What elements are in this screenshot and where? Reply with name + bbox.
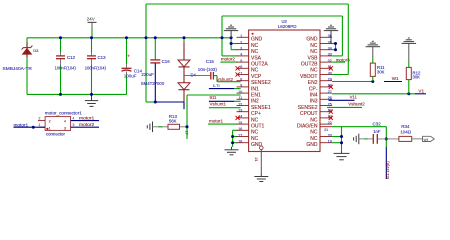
svg-text:OUT1: OUT1 [251, 124, 265, 130]
svg-text:GND: GND [306, 142, 318, 148]
svg-text:VSB: VSB [307, 55, 318, 61]
svg-text:NC: NC [310, 130, 318, 136]
svg-text:1: 1 [49, 127, 51, 131]
svg-text:IN1: IN1 [251, 86, 259, 92]
svg-text:motor2: motor2 [221, 56, 236, 61]
svg-text:1.TI: 1.TI [213, 83, 220, 88]
svg-text:100uF: 100uF [124, 73, 137, 78]
svg-text:3: 3 [64, 127, 66, 131]
svg-text:GND: GND [251, 37, 263, 43]
svg-text:C32: C32 [373, 121, 382, 126]
svg-text:4: 4 [73, 117, 75, 121]
svg-text:27: 27 [328, 90, 332, 94]
svg-text:10n-(103): 10n-(103) [198, 67, 218, 72]
svg-text:4: 4 [64, 120, 66, 124]
svg-text:30: 30 [328, 71, 332, 75]
svg-text:6: 6 [240, 65, 242, 69]
svg-text:104Ω: 104Ω [400, 130, 412, 135]
svg-text:EN1: EN1 [251, 93, 261, 99]
svg-text:10: 10 [238, 90, 242, 94]
svg-text:motor1: motor1 [209, 118, 224, 123]
svg-text:220uF: 220uF [141, 72, 154, 77]
svg-text:motor_connector1: motor_connector1 [45, 111, 82, 116]
svg-text:19: 19 [328, 140, 332, 144]
svg-text:26: 26 [328, 96, 332, 100]
svg-text:1nF: 1nF [373, 129, 381, 134]
svg-text:C15: C15 [206, 59, 215, 64]
svg-text:NC: NC [251, 43, 259, 49]
svg-text:D3: D3 [33, 48, 39, 53]
svg-text:25: 25 [328, 102, 332, 106]
svg-text:Vshunt1: Vshunt1 [210, 102, 227, 107]
svg-text:NC: NC [310, 68, 318, 74]
svg-text:4: 4 [240, 53, 242, 57]
svg-text:IN3: IN3 [310, 99, 318, 105]
svg-text:NC: NC [251, 130, 259, 136]
svg-text:+: + [127, 54, 130, 59]
svg-text:16: 16 [238, 127, 242, 131]
svg-text:17: 17 [185, 131, 189, 135]
svg-text:NC: NC [310, 117, 318, 123]
svg-text:20: 20 [328, 133, 332, 137]
svg-text:56K: 56K [169, 119, 177, 124]
svg-text:2: 2 [49, 120, 51, 124]
svg-text:motor3: motor3 [336, 57, 351, 62]
svg-text:SENSE1: SENSE1 [251, 105, 271, 111]
svg-text:2: 2 [39, 117, 41, 121]
svg-text:911: 911 [210, 95, 218, 100]
svg-text:NC: NC [310, 43, 318, 49]
svg-text:29: 29 [328, 78, 332, 82]
svg-text:N-1.11V(K): N-1.11V(K) [386, 161, 390, 179]
svg-text:100nF(104): 100nF(104) [55, 65, 77, 70]
svg-text:21: 21 [324, 128, 328, 132]
svg-text:11: 11 [239, 96, 243, 100]
svg-text:NC: NC [310, 49, 318, 55]
svg-text:30K: 30K [413, 74, 421, 79]
svg-text:9: 9 [240, 84, 242, 88]
svg-text:32: 32 [328, 59, 332, 63]
svg-text:Vshunt2: Vshunt2 [348, 101, 365, 106]
svg-text:7: 7 [240, 71, 242, 75]
svg-text:motor1: motor1 [79, 116, 95, 122]
svg-text:CP-: CP- [309, 86, 318, 92]
svg-text:1: 1 [240, 34, 242, 38]
svg-text:DIAG/EN: DIAG/EN [297, 124, 318, 130]
svg-text:3: 3 [73, 123, 75, 127]
svg-text:NC: NC [251, 68, 259, 74]
svg-text:IN2: IN2 [251, 99, 259, 105]
svg-text:CPOUT: CPOUT [300, 111, 318, 117]
svg-text:1: 1 [39, 123, 41, 127]
svg-text:SENSE2: SENSE2 [298, 105, 318, 111]
svg-text:SENSE2: SENSE2 [251, 80, 271, 86]
svg-text:35: 35 [328, 40, 332, 44]
svg-text:NC: NC [251, 136, 259, 142]
svg-text:15: 15 [238, 121, 242, 125]
svg-text:21: 21 [254, 158, 258, 162]
svg-text:motor1: motor1 [14, 122, 29, 127]
svg-text:13: 13 [238, 109, 242, 113]
svg-text:2: 2 [240, 40, 242, 44]
svg-text:V1: V1 [418, 88, 424, 93]
svg-text:connector: connector [46, 132, 65, 137]
svg-text:17: 17 [238, 133, 242, 137]
svg-text:Vshunt2: Vshunt2 [217, 77, 234, 82]
svg-text:8: 8 [240, 78, 242, 82]
svg-text:L6208PD: L6208PD [278, 24, 298, 29]
svg-text:34: 34 [328, 47, 332, 51]
svg-text:V11: V11 [350, 95, 358, 100]
svg-text:SMBJ40A-TR: SMBJ40A-TR [3, 66, 33, 72]
svg-text:33: 33 [328, 53, 332, 57]
svg-text:W1: W1 [392, 76, 399, 81]
svg-text:motor2: motor2 [79, 122, 95, 128]
svg-text:W4: W4 [424, 138, 429, 142]
svg-text:OUT2B: OUT2B [301, 62, 318, 68]
svg-text:GND: GND [251, 142, 263, 148]
svg-text:30K: 30K [377, 69, 385, 74]
svg-text:VSA: VSA [251, 55, 262, 61]
svg-text:12: 12 [238, 102, 242, 106]
svg-text:NC: NC [310, 136, 318, 142]
svg-text:24V: 24V [87, 16, 96, 21]
svg-text:EN2: EN2 [308, 80, 318, 86]
svg-text:IN4: IN4 [310, 93, 318, 99]
svg-text:VCP: VCP [251, 74, 262, 80]
svg-text:D4: D4 [191, 72, 197, 77]
svg-text:36: 36 [328, 34, 332, 38]
svg-text:OUT2A: OUT2A [251, 62, 268, 68]
svg-text:NC: NC [251, 117, 259, 123]
svg-text:18: 18 [238, 140, 242, 144]
svg-text:100nF(104): 100nF(104) [85, 65, 107, 70]
svg-text:C16: C16 [162, 59, 171, 64]
svg-text:VBOOT: VBOOT [300, 74, 318, 80]
svg-text:5: 5 [240, 59, 242, 63]
svg-text:C12: C12 [67, 55, 76, 60]
svg-text:R34: R34 [401, 124, 410, 129]
svg-text:22: 22 [328, 121, 332, 125]
svg-text:C13: C13 [98, 55, 107, 60]
svg-text:SM4T37000: SM4T37000 [141, 81, 165, 86]
svg-text:GND: GND [306, 37, 318, 43]
svg-text:3: 3 [240, 47, 242, 51]
svg-text:NC: NC [251, 49, 259, 55]
svg-text:CP+: CP+ [251, 111, 261, 117]
